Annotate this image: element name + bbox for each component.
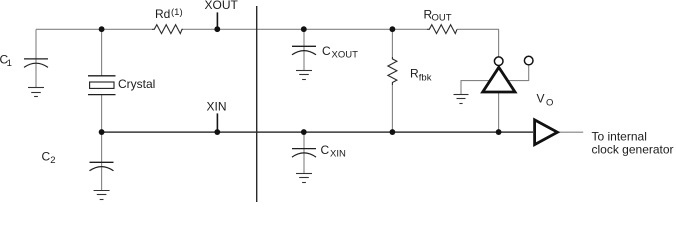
svg-text:C: C (322, 44, 331, 58)
capacitor C2 (90, 162, 114, 171)
svg-text:2: 2 (50, 155, 55, 166)
wire: Rfbk bottom lead (391, 85, 393, 132)
ground for CXOUT (296, 71, 312, 80)
wire: XIN label tick (216, 113, 218, 131)
svg-text:R: R (410, 67, 419, 81)
svg-text:OUT: OUT (432, 12, 452, 23)
chip boundary line (256, 6, 258, 202)
svg-text:(1): (1) (171, 7, 183, 18)
resistor Rfbk (388, 57, 397, 85)
capacitor CXIN (292, 149, 316, 158)
svg-text:XIN: XIN (330, 148, 346, 159)
wire: C1 vertical stem (35, 29, 37, 87)
wire: inverter right terminal to circle (508, 66, 529, 81)
label ROUT (424, 8, 452, 24)
label Rfbk (410, 67, 432, 84)
svg-text:C: C (321, 143, 330, 157)
junction dot: top net at CXOUT (301, 26, 307, 32)
crystal Y1 (88, 76, 116, 95)
wire: XOUT label tick (216, 12, 218, 28)
op-amp U1 inverter triangle (points up) (483, 67, 515, 92)
node XOUT label (205, 0, 239, 12)
buffer U2 triangle (points right) (535, 120, 558, 145)
label C1 (0, 52, 12, 69)
junction dot: XIN net at Rfbk (390, 129, 396, 135)
label CXOUT (322, 44, 358, 60)
junction dot: XIN net at CXIN (301, 129, 307, 135)
svg-text:V: V (537, 92, 545, 106)
label CXIN (321, 143, 346, 159)
wire: CXOUT stem (303, 29, 305, 70)
junction dot: XIN net at crystal (99, 129, 105, 135)
wire: buffer output (559, 131, 584, 133)
label C2 (42, 149, 56, 166)
svg-text:1: 1 (7, 58, 12, 69)
label: To internal clock generator (592, 129, 674, 156)
ground for C2 (94, 191, 110, 200)
label VO (537, 92, 554, 109)
junction dot: XIN net at inverter output (496, 129, 502, 135)
svg-text:fbk: fbk (419, 72, 432, 83)
svg-text:C: C (42, 149, 51, 163)
capacitor C1 (24, 59, 48, 68)
wire: crystal top stem (101, 29, 103, 75)
svg-text:XIN: XIN (207, 99, 227, 113)
resistor Rd (152, 25, 183, 34)
node XIN label (207, 99, 227, 113)
wire: crystal bottom stem (101, 95, 103, 133)
right terminal circle (524, 56, 533, 65)
wire: inverter output down to XIN (498, 92, 500, 132)
junction dot: top net at crystal (99, 26, 105, 32)
ground for C1 (28, 88, 44, 97)
junction dot: XOUT node (214, 26, 220, 32)
wire: XOUT top net horizontal segments (36, 29, 499, 56)
svg-text:Crystal: Crystal (118, 77, 155, 91)
wire: XIN bottom net horizontal (102, 131, 534, 133)
svg-text:XOUT: XOUT (332, 49, 359, 60)
resistor ROUT (427, 25, 457, 34)
svg-text:XOUT: XOUT (205, 0, 239, 12)
ground for CXIN (296, 174, 312, 183)
svg-text:To internal: To internal (592, 129, 647, 143)
svg-text:O: O (546, 98, 553, 109)
wire: CXIN stem (303, 132, 305, 173)
wire: C2 vertical stem (101, 132, 103, 190)
label Crystal (118, 77, 155, 91)
capacitor CXOUT (292, 46, 316, 55)
inverter output bubble (494, 57, 503, 66)
junction dot: XIN node (214, 129, 220, 135)
junction dot: top net at Rfbk (390, 26, 396, 32)
ground for inverter (454, 95, 469, 104)
wire: Rfbk top lead (391, 29, 393, 57)
label Rd(1) (155, 7, 183, 21)
svg-text:Rd: Rd (155, 7, 170, 21)
wire: inverter left input to ground (461, 81, 490, 95)
svg-text:clock generator: clock generator (592, 142, 674, 156)
